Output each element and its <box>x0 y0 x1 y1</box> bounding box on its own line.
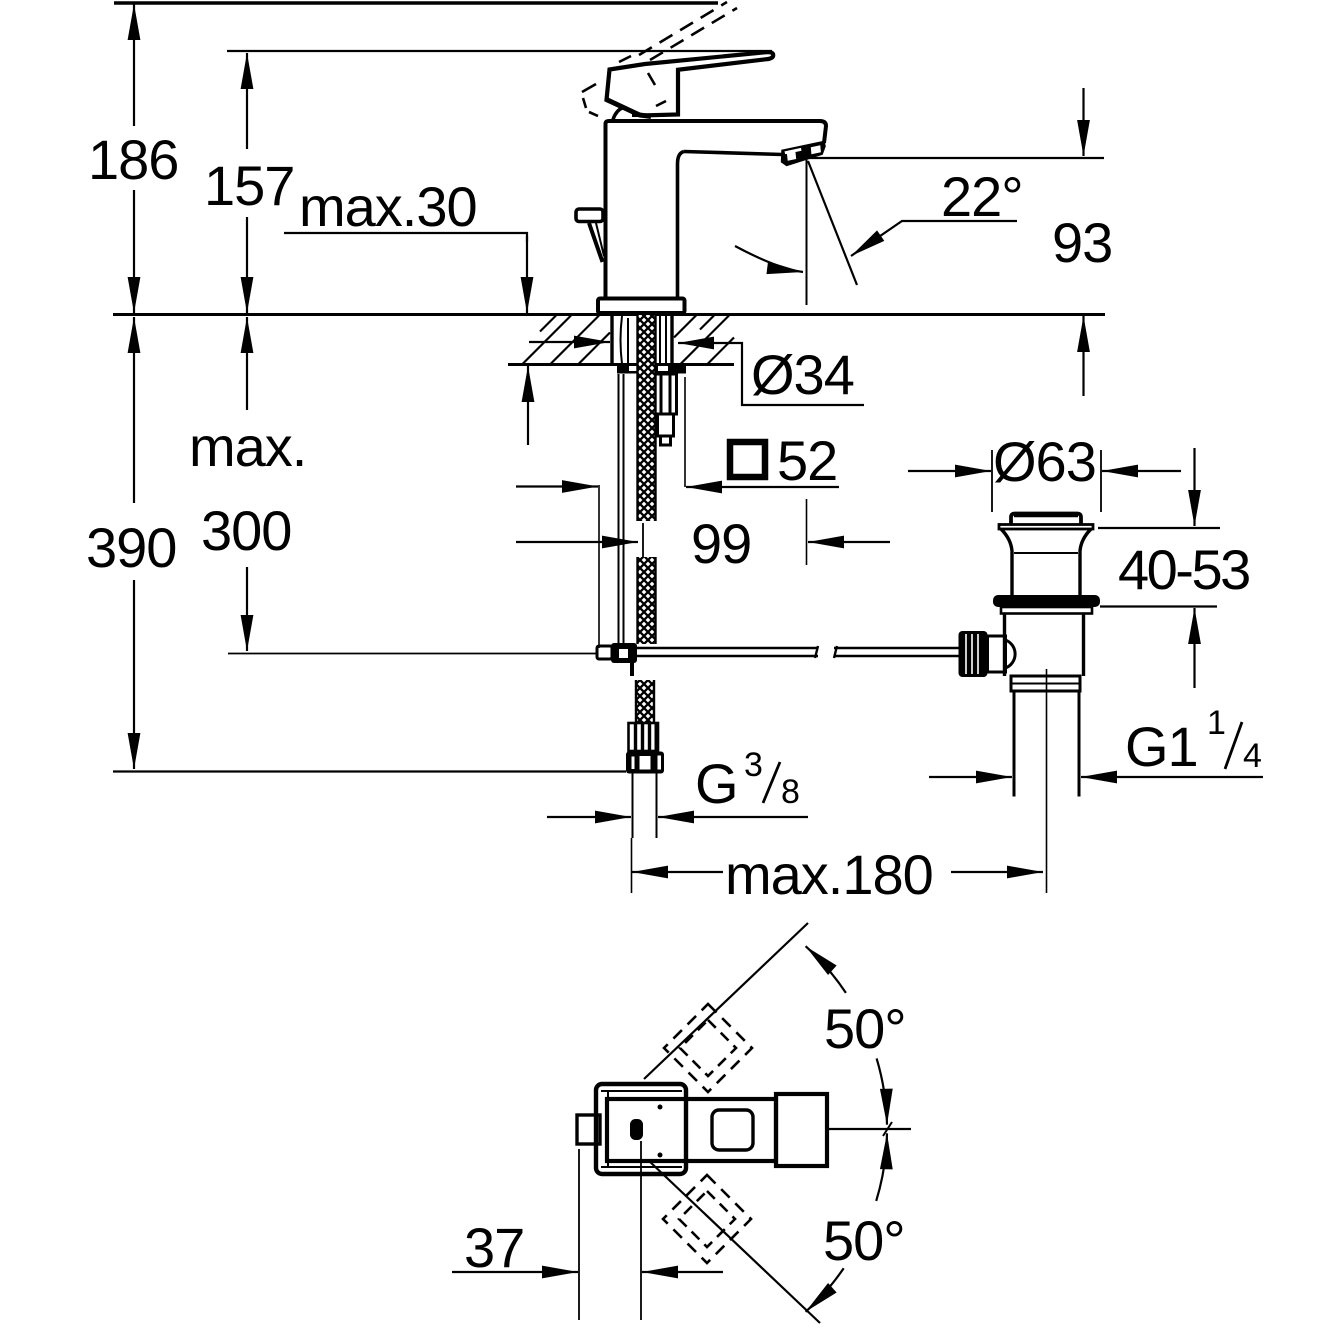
drain rubber gasket <box>993 595 1100 607</box>
mounting nut below washer <box>655 374 677 445</box>
svg-text:50°: 50° <box>824 997 906 1060</box>
hose end extension lines <box>633 774 657 839</box>
svg-text:300: 300 <box>201 499 291 562</box>
drain pull rod knob on faucet <box>576 209 603 222</box>
dimension 99 arrows <box>516 541 890 543</box>
hose end nut G3/8 <box>626 752 664 774</box>
rotation arc lower 50 <box>806 1133 887 1312</box>
svg-text:G: G <box>695 752 738 815</box>
spout height reference line <box>807 157 1104 159</box>
deck hole left edge <box>610 315 613 364</box>
svg-text:1: 1 <box>1207 704 1225 742</box>
reference line top (186 max height) <box>114 1 718 4</box>
drain washer <box>1001 607 1092 614</box>
svg-text:8: 8 <box>781 773 799 811</box>
rotation arc upper 50 <box>806 946 887 1124</box>
top view spout tab <box>577 1115 600 1144</box>
drain extension line right <box>1100 450 1102 512</box>
label G1 1/4 <box>1125 704 1261 778</box>
svg-text:Ø34: Ø34 <box>751 343 854 406</box>
drain knob connector <box>988 636 1016 672</box>
drain body <box>1005 614 1084 677</box>
dimension 52 arrows <box>516 485 839 488</box>
drain plug cap <box>999 514 1093 530</box>
top view lever end <box>776 1094 827 1166</box>
handle lever solid <box>607 52 774 115</box>
dashed rotated square upper outer <box>664 1004 752 1092</box>
svg-text:4: 4 <box>1243 737 1261 775</box>
drain knurled knob <box>959 631 988 677</box>
drain flared neck <box>1001 529 1091 595</box>
extension line x685 <box>684 377 686 487</box>
dimension max.300 vertical <box>246 317 248 651</box>
handle raised position dashed block <box>582 56 666 116</box>
leader 22 degrees <box>851 221 1017 256</box>
pull rod left end cap <box>597 646 612 659</box>
rotation diagonal upper <box>644 923 808 1079</box>
countertop line <box>113 313 1105 316</box>
svg-text:157: 157 <box>204 154 294 217</box>
supply hose braided segment C <box>635 680 655 723</box>
top view body square <box>596 1084 686 1174</box>
rotation diagonal lower <box>648 1160 820 1323</box>
dimension Ø63 arrows <box>908 470 1181 472</box>
hose centerline extension <box>631 838 633 893</box>
svg-text:Ø63: Ø63 <box>993 430 1096 493</box>
aerator spout end <box>781 141 826 167</box>
dimension max.30 leader and arrows <box>284 233 528 445</box>
dimension G1 1/4 arrows <box>929 776 1263 778</box>
pull rod stub below tee <box>630 663 634 676</box>
supply hose braided segment A <box>637 315 657 521</box>
rod level reference line <box>228 653 597 655</box>
handle pivot dome <box>607 100 653 120</box>
top view handle lever <box>607 1099 776 1161</box>
dimension 40-53 reference top <box>1098 527 1220 529</box>
countertop hatching <box>522 315 734 365</box>
hose continuation centerline <box>642 523 644 557</box>
drain pull rod upper diagonal <box>589 223 604 262</box>
dimension max.180 <box>632 871 1043 873</box>
mounting washer under deck <box>617 364 686 374</box>
countertop underside line <box>508 363 734 366</box>
svg-text:max.180: max.180 <box>725 843 933 906</box>
dimension 93 vertical arrows <box>1082 88 1084 396</box>
drain centerline <box>1046 669 1048 893</box>
hose compression sleeve <box>629 723 659 751</box>
water outlet reference vertical line <box>806 159 808 305</box>
svg-text:max.30: max.30 <box>299 175 477 238</box>
dimension 390 vertical <box>133 317 135 769</box>
dimension Ø34 arrows <box>529 342 864 405</box>
faucet body trunk <box>606 121 827 298</box>
dashed rotated square lower outer <box>663 1175 751 1263</box>
dimension 37 arrows <box>452 1271 723 1273</box>
pull rod tee block <box>611 643 637 663</box>
dimension 157 vertical line with arrows <box>246 53 248 313</box>
square symbol 52 <box>730 442 765 477</box>
dashed rotated square upper inner <box>680 1020 736 1076</box>
top view pull rod knob blob <box>630 1119 643 1140</box>
angle arc arrow <box>735 246 803 272</box>
svg-text:37: 37 <box>464 1216 524 1279</box>
shank tube walls in hole <box>621 316 667 364</box>
faucet base flange <box>598 299 685 314</box>
supply hose braided segment B <box>637 557 657 644</box>
dimension 37 extension right <box>640 1141 642 1320</box>
dimension 40-53 reference bottom <box>1100 605 1217 607</box>
reference line 157 level <box>227 50 772 52</box>
svg-text:99: 99 <box>691 512 751 575</box>
handle centerline right <box>827 1128 911 1130</box>
deck hole right edge <box>670 315 673 364</box>
dashed rotated square lower inner <box>679 1191 735 1247</box>
svg-text:G1: G1 <box>1125 715 1198 778</box>
dimension G3/8 arrows <box>547 816 808 818</box>
drain extension line left <box>991 450 993 512</box>
horizontal pop-up rod segment A <box>633 646 818 658</box>
svg-text:50°: 50° <box>823 1209 905 1272</box>
svg-text:40-53: 40-53 <box>1118 538 1249 601</box>
svg-text:52: 52 <box>777 429 837 492</box>
svg-text:93: 93 <box>1052 211 1112 274</box>
label G 3/8 <box>695 746 799 815</box>
dimension 186 vertical line with arrows <box>133 4 135 313</box>
svg-text:3: 3 <box>744 746 762 784</box>
dimension 40-53 arrows <box>1193 448 1195 688</box>
drain bottom fitting <box>1011 676 1080 691</box>
horizontal pop-up rod segment B <box>834 646 959 658</box>
drain tail pipe <box>1014 691 1079 797</box>
svg-text:22°: 22° <box>941 165 1023 228</box>
svg-text:186: 186 <box>88 128 178 191</box>
pull rod below deck <box>619 374 624 644</box>
top view detail dots <box>658 1105 663 1110</box>
svg-text:390: 390 <box>86 516 176 579</box>
top view lever inner square <box>712 1110 753 1150</box>
bottom reference line 390 <box>113 770 626 772</box>
water stream 22 degree line <box>808 161 857 285</box>
handle raised position dashed lever <box>639 2 737 60</box>
dimension 37 extension left <box>578 1149 580 1320</box>
svg-text:max.: max. <box>189 415 306 478</box>
arc tick cross <box>883 1122 892 1136</box>
extension line x599 <box>598 485 600 648</box>
extension line spout outlet <box>806 499 808 565</box>
